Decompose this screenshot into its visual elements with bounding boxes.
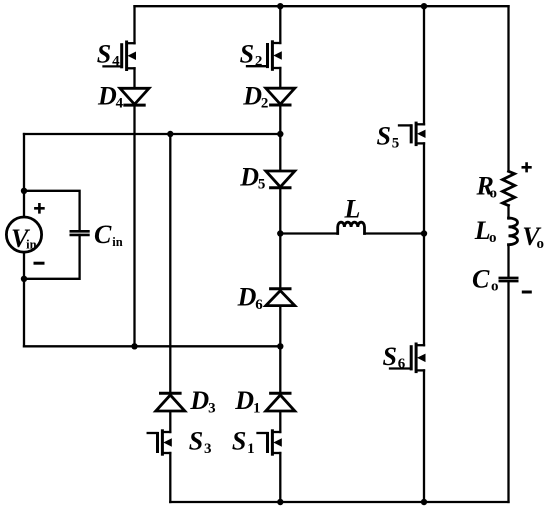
wire node B horizontal bus — [24, 345, 280, 347]
wire Cin bottom lead — [24, 235, 80, 279]
wire S3 source to bottom bus — [169, 453, 171, 502]
wire S1 source to bottom bus — [279, 453, 281, 502]
wire top bus — [135, 5, 509, 7]
node dot B-D6 — [277, 343, 283, 349]
svg-text:Ro: Ro — [476, 172, 497, 202]
node dot A-D2 — [277, 131, 283, 137]
wire D1 to S1 — [279, 411, 281, 432]
transistor S5 — [399, 123, 426, 145]
wire Cin top lead — [24, 191, 80, 232]
diode D3 — [156, 393, 185, 411]
wire D2 to D5 — [279, 105, 281, 171]
minus sign Vin — [35, 262, 43, 265]
wire Lo to Co — [507, 245, 509, 277]
node dot top S2 — [277, 3, 283, 9]
node dot bottom S6 — [421, 499, 427, 505]
wire S5 source to S6 — [423, 143, 425, 345]
transistor S1 — [258, 431, 282, 454]
diode D5 — [266, 171, 295, 188]
node dot A-S3 — [167, 131, 173, 137]
wire Vin branch — [23, 134, 25, 346]
node dot bottom S1 — [277, 499, 283, 505]
wire S2 drain from top bus — [279, 6, 281, 43]
transistor S6 — [390, 344, 426, 372]
wire node A horizontal bus — [24, 133, 280, 135]
wire Co to bottom bus — [507, 282, 509, 502]
wire inductor net — [280, 232, 424, 234]
diode D2 — [266, 88, 295, 105]
wire output branch top — [507, 6, 509, 171]
transistor S3 — [148, 431, 172, 454]
wire S3 branch from node A — [169, 134, 171, 393]
capacitor Cin — [71, 231, 89, 235]
resistor Ro — [503, 171, 515, 205]
plus sign output — [523, 164, 531, 172]
node dot L right — [421, 230, 427, 236]
wire S6 source to bottom bus — [423, 370, 425, 502]
node dot Cin top — [21, 188, 27, 194]
capacitor Co — [500, 278, 517, 281]
wire bottom bus — [170, 501, 508, 503]
source Vin circle — [6, 217, 41, 252]
node dot B-D4 — [131, 343, 137, 349]
svg-text:L: L — [344, 195, 361, 224]
transistor S4 — [104, 42, 137, 70]
wire D5 to D6 — [279, 188, 281, 289]
node dot top S5 — [421, 3, 427, 9]
wire S4 to D4 — [133, 68, 135, 88]
minus sign output — [523, 291, 530, 294]
transistor S2 — [247, 42, 282, 70]
diode D4 — [120, 88, 149, 105]
wire D3 to S3 — [169, 411, 171, 432]
wire S5 drain from top bus — [423, 6, 425, 124]
diode D1 — [266, 393, 295, 411]
wire D6 to node B — [279, 306, 281, 394]
node dot Cin bottom — [21, 276, 27, 282]
inductor Lo — [509, 218, 518, 245]
diode D6 — [266, 289, 295, 306]
wire Ro to Lo — [507, 205, 509, 218]
node dot L left — [277, 230, 283, 236]
plus sign Vin — [35, 204, 43, 212]
wire S4 drain from top bus — [133, 6, 135, 43]
wire D4 to node B — [133, 105, 135, 346]
wire S2 to D2 — [279, 68, 281, 88]
inductor L — [338, 222, 365, 233]
